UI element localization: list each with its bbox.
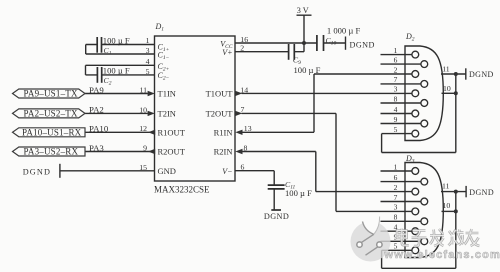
- svg-text:5: 5: [394, 125, 398, 134]
- connector D2 shell: [405, 46, 443, 141]
- svg-text:V−: V−: [222, 167, 232, 176]
- arrow R2IN: [235, 149, 242, 154]
- ground DGND bar left: [59, 164, 61, 178]
- node D3 pin11 junction: [454, 190, 458, 194]
- capacitor C11 plates: [268, 185, 285, 189]
- power 3V rail: [297, 15, 312, 43]
- svg-text:6: 6: [394, 55, 398, 64]
- arrow T2IN: [148, 111, 155, 116]
- svg-text:10: 10: [443, 84, 451, 93]
- capacitor C2 plates: [97, 67, 101, 83]
- svg-text:9: 9: [143, 143, 147, 152]
- svg-text:100 µ F: 100 µ F: [294, 65, 321, 75]
- svg-text:PA9–US1–TX: PA9–US1–TX: [24, 89, 78, 99]
- ground DGND bar D2: [465, 68, 467, 79]
- wire C2 loop stub: [85, 65, 87, 75]
- svg-text:16: 16: [240, 35, 248, 44]
- svg-text:9: 9: [394, 115, 398, 124]
- wire T2OUT to D3 pin3: [242, 113, 412, 211]
- wire D3 pin10: [442, 210, 456, 212]
- net tag PA2-US2-TX: [13, 109, 86, 118]
- wire pin4: [86, 64, 155, 66]
- IC left pin names: [158, 42, 170, 81]
- wire T2IN: [85, 112, 148, 114]
- arrow R2OUT: [148, 149, 155, 154]
- svg-text:100 µ F: 100 µ F: [103, 36, 130, 46]
- wire D2 pin10: [442, 92, 456, 94]
- node 3V/Vcc junction: [302, 41, 306, 45]
- net tag PA10-US1-RX: [13, 128, 86, 137]
- svg-text:7: 7: [394, 193, 398, 202]
- svg-text:R1OUT: R1OUT: [158, 127, 186, 137]
- arrow T1OUT: [235, 91, 242, 96]
- node D3 pin10 junction: [454, 209, 458, 213]
- svg-text:PA3: PA3: [89, 143, 104, 153]
- arrow R1OUT: [148, 130, 155, 135]
- wire C11 lower lead: [273, 189, 275, 210]
- svg-text:D2: D2: [405, 32, 415, 43]
- svg-text:3: 3: [394, 85, 398, 94]
- svg-text:10: 10: [139, 105, 147, 114]
- svg-text:4: 4: [146, 57, 150, 66]
- svg-text:11: 11: [139, 85, 147, 94]
- watermark logo elecfans: [351, 213, 391, 262]
- wire R2IN from D3 pin2: [242, 152, 412, 192]
- capacitor C9 plates: [289, 44, 295, 60]
- wire GND pin15: [60, 170, 155, 172]
- connector D2 pin stubs: [381, 54, 412, 56]
- svg-text:C2: C2: [104, 76, 112, 87]
- svg-text:T2IN: T2IN: [158, 109, 176, 119]
- capacitor C1 plates: [97, 37, 101, 53]
- svg-text:R1IN: R1IN: [214, 127, 233, 137]
- svg-text:3: 3: [394, 203, 398, 212]
- wire C1 loop stub: [85, 45, 87, 55]
- ground DGND bar D3: [465, 186, 467, 197]
- net tag PA3-US2-RX: [13, 147, 86, 156]
- wire R2OUT: [85, 151, 155, 153]
- node D2 pin10 junction: [454, 91, 458, 95]
- svg-text:13: 13: [244, 124, 252, 133]
- svg-text:D3: D3: [405, 154, 415, 165]
- svg-text:PA10–US1–RX: PA10–US1–RX: [22, 127, 82, 137]
- svg-text:4: 4: [394, 105, 398, 114]
- wire R1OUT: [85, 131, 155, 133]
- wire C10 leads: [304, 42, 345, 44]
- svg-text:T1IN: T1IN: [158, 89, 176, 99]
- arrow T1IN: [148, 91, 155, 96]
- wire T1IN: [85, 93, 148, 95]
- svg-text:8: 8: [244, 143, 248, 152]
- svg-text:1: 1: [146, 36, 150, 45]
- svg-text:5: 5: [146, 67, 150, 76]
- svg-text:3 V: 3 V: [297, 6, 309, 15]
- svg-text:6: 6: [241, 163, 245, 172]
- wire pin3: [86, 53, 155, 55]
- svg-text:12: 12: [139, 124, 147, 133]
- D2 stub pin numbers: [394, 46, 398, 134]
- wire R1IN from D2 pin2: [242, 74, 412, 132]
- svg-text:C10: C10: [326, 36, 337, 47]
- connector D3 pin stubs: [381, 170, 412, 172]
- svg-text:1: 1: [394, 46, 398, 55]
- IC right pin names: [206, 39, 234, 176]
- tag text PA9-US1-TX: [22, 89, 82, 157]
- svg-text:1 000 µ F: 1 000 µ F: [327, 25, 361, 35]
- svg-text:D1: D1: [155, 22, 165, 33]
- svg-text:DGND: DGND: [350, 40, 375, 49]
- svg-text:DGND: DGND: [264, 212, 289, 221]
- wire Vcc pin16: [235, 42, 304, 44]
- svg-text:2: 2: [394, 183, 398, 192]
- svg-text:6: 6: [394, 173, 398, 182]
- wire V- pin6: [235, 171, 274, 185]
- pin direction arrows: [148, 91, 243, 155]
- wire D3 pin11 DGND: [441, 191, 466, 193]
- wire D2 ground loop to pin5: [382, 74, 456, 153]
- wire pin5: [86, 74, 155, 76]
- svg-text:PA9: PA9: [89, 85, 104, 95]
- ground DGND bar below C11: [271, 209, 281, 211]
- svg-text:14: 14: [240, 85, 248, 94]
- svg-text:15: 15: [139, 163, 147, 172]
- IC left pin numbers: [139, 36, 149, 172]
- IC U1 MAX3232CSE body: [155, 36, 236, 181]
- svg-text:PA10: PA10: [89, 124, 109, 134]
- svg-text:PA2–US2–TX: PA2–US2–TX: [24, 108, 78, 118]
- svg-text:PA2: PA2: [89, 105, 104, 115]
- svg-text:8: 8: [394, 213, 398, 222]
- node D2 pin11 junction: [454, 72, 458, 76]
- connector D3 shell: [405, 163, 443, 258]
- watermark hanzi: [397, 229, 480, 247]
- arrow R1IN: [235, 130, 242, 135]
- connector D2 pin circles: [412, 51, 428, 137]
- wire D3 ground loop to pin5: [382, 192, 456, 269]
- arrow T2OUT: [235, 111, 242, 116]
- svg-text:100 µ F: 100 µ F: [103, 66, 130, 76]
- IC right pin numbers: [240, 35, 251, 172]
- connector D3 pin circles: [412, 168, 428, 254]
- wire V+ pin2: [235, 43, 304, 52]
- ground DGND bar top-right: [345, 37, 347, 50]
- svg-text:8: 8: [394, 94, 398, 103]
- junction dots: [302, 41, 458, 213]
- net labels left: [89, 85, 109, 153]
- capacitor C10 plates: [317, 35, 324, 51]
- svg-text:MAX3232CSE: MAX3232CSE: [154, 185, 210, 195]
- svg-text:3: 3: [146, 46, 150, 55]
- svg-text:DGND: DGND: [469, 70, 494, 79]
- svg-text:PA3–US2–RX: PA3–US2–RX: [24, 147, 79, 157]
- svg-text:V+: V+: [222, 48, 232, 57]
- svg-text:1: 1: [394, 162, 398, 171]
- svg-text:7: 7: [241, 105, 245, 114]
- svg-text:C2−: C2−: [158, 71, 170, 82]
- svg-text:T2OUT: T2OUT: [206, 109, 234, 119]
- svg-text:DGND: DGND: [23, 167, 51, 176]
- svg-text:T1OUT: T1OUT: [206, 89, 234, 99]
- svg-text:2: 2: [240, 44, 244, 53]
- wire T1OUT to D2 pin3: [242, 92, 412, 94]
- svg-text:11: 11: [442, 65, 450, 74]
- svg-text:GND: GND: [158, 166, 176, 176]
- svg-text:2: 2: [394, 65, 398, 74]
- net tag PA9-US1-TX: [13, 89, 86, 156]
- svg-text:7: 7: [394, 75, 398, 84]
- svg-text:100 µ F: 100 µ F: [285, 188, 312, 198]
- svg-text:11: 11: [442, 181, 450, 190]
- D3 stub pin numbers: [394, 162, 398, 250]
- svg-text:10: 10: [443, 201, 451, 210]
- svg-text:C1: C1: [104, 46, 112, 57]
- svg-text:DGND: DGND: [469, 188, 494, 197]
- wire D2 pin11 DGND: [441, 73, 466, 75]
- svg-text:R2IN: R2IN: [214, 147, 233, 157]
- svg-text:www.elecfans.com: www.elecfans.com: [384, 249, 500, 261]
- svg-text:R2OUT: R2OUT: [158, 147, 186, 157]
- wire pin1: [86, 44, 155, 46]
